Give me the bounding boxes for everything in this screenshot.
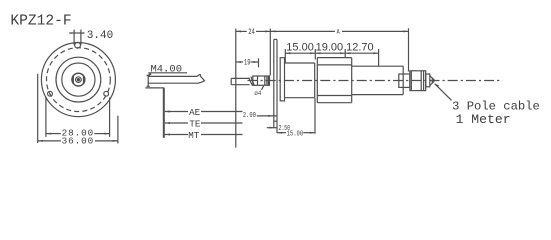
body2 inner line bottom (317, 95, 351, 97)
nut facet line 1 (257, 76, 259, 85)
M4.00 leader arrowhead (146, 73, 151, 77)
svg-text:MT: MT (188, 130, 200, 141)
flange ext below right (276, 121, 278, 133)
body2 left face (316, 58, 318, 103)
svg-text:15.00: 15.00 (287, 130, 304, 138)
center line (dash-dot) (248, 80, 503, 82)
body2 top (317, 57, 351, 59)
screw left end serif bottom (147, 85, 150, 87)
dim 15.00 bottom line left seg (277, 132, 286, 134)
dim 36.00 line right seg (95, 140, 118, 142)
mounting hole left (48, 91, 53, 96)
svg-text:15.00: 15.00 (286, 42, 314, 54)
gland rib 1 (410, 71, 412, 91)
dim 15.00 bottom arrowheads (277, 132, 315, 134)
dim 2.50 arrow line (267, 127, 277, 129)
hook 15.00 left (284, 49, 286, 63)
gland rib 2 (420, 71, 422, 91)
dim 15.00 bottom ext right (314, 98, 316, 134)
svg-text:12.70: 12.70 (346, 42, 374, 54)
body1 right face (314, 63, 316, 98)
front view shaft circle (76, 77, 82, 83)
hook 19.00 left (314, 49, 316, 60)
dia4 leader hook (262, 86, 264, 90)
svg-text:1 Meter: 1 Meter (456, 112, 511, 127)
svg-text:3.40: 3.40 (87, 30, 113, 42)
front view shaft boss circle with flats (72, 73, 85, 86)
hook 12.70 left (344, 49, 346, 57)
cable boss step (399, 74, 410, 87)
nut facet line 3 (266, 76, 268, 85)
dim 19 arrowheads (236, 61, 259, 63)
leader AE arrowhead (165, 111, 170, 113)
shared extension line (24/A) (269, 29, 271, 76)
svg-text:2.00: 2.00 (243, 112, 256, 120)
leader TE line left (165, 122, 188, 124)
mounting hole top (75, 42, 81, 48)
dim 36.00 ext line right (117, 116, 119, 144)
svg-text:19.00: 19.00 (316, 42, 344, 54)
collar behind flange (280, 58, 284, 101)
body3 right face (402, 66, 404, 94)
dim 36.00 line left seg (38, 140, 61, 142)
svg-text:24: 24 (248, 28, 255, 37)
dim 36.00 ext line left (37, 74, 39, 143)
body2 inner line top (317, 64, 351, 66)
boss right flat (83, 76, 85, 83)
rotor shaft top line (231, 77, 249, 79)
cable sleeve (426, 74, 430, 87)
cable tip taper bottom (430, 81, 435, 86)
svg-text:M4.00: M4.00 (151, 64, 183, 76)
svg-text:A: A (337, 28, 340, 36)
flange ext below left (273, 121, 275, 128)
body2 right face (351, 58, 353, 103)
cable leader arrowhead (434, 83, 439, 87)
hook 12.70 right (378, 49, 380, 66)
svg-text:19: 19 (244, 59, 251, 68)
shaft break slant 2 (251, 77, 255, 86)
leader AE line left (165, 111, 188, 113)
svg-text:TE: TE (189, 118, 201, 129)
dim 24 arrowheads (236, 30, 270, 32)
dim A arrowheads (270, 30, 408, 32)
svg-text:36.00: 36.00 (62, 135, 95, 146)
dim 3.40 line left (69, 32, 84, 34)
dim 19 right ext line (258, 58, 260, 67)
front view center dot (77, 78, 80, 81)
leader MT line left (165, 134, 188, 136)
body3 bottom (352, 94, 404, 96)
mounting hole right (104, 91, 109, 96)
dim 2.00 arrowhead (268, 115, 273, 117)
dim 28.00 arrowheads (46, 133, 110, 135)
body3 top (352, 65, 404, 67)
front view body circle r22 (56, 57, 101, 102)
cable leader line (435, 84, 452, 101)
cable tip taper top (430, 76, 435, 80)
svg-text:ø4: ø4 (254, 90, 261, 98)
dim 24 line right seg (256, 30, 270, 32)
flange plate left face (273, 39, 275, 121)
body section 1 bottom (285, 97, 315, 99)
dim 15.00 bottom line right seg (303, 132, 315, 134)
dim 3.40 extension line left (73, 30, 75, 45)
dim 28.00 line right seg (94, 133, 109, 135)
leader TE arrowhead (165, 122, 170, 124)
dim 28.00 line left seg (46, 133, 61, 135)
body2 bottom (317, 102, 351, 104)
screw shaft top line (148, 75, 197, 77)
leader MT arrowhead (165, 134, 170, 136)
dim 19 line left seg with arrow (236, 61, 243, 63)
shaft break slant 1 (249, 78, 253, 86)
body section 1 top (285, 62, 315, 64)
bracket vertical line (163, 88, 165, 138)
boss left flat (72, 76, 74, 83)
screw left end cap (147, 75, 149, 86)
bracket plate line (145, 87, 164, 89)
svg-text:AE: AE (189, 107, 201, 118)
dim 2.00 arrow line (257, 115, 277, 117)
screw break flag (197, 75, 204, 84)
dim 28.00 ext line right (109, 98, 111, 137)
screw shaft bottom line (148, 82, 199, 84)
flange plate right face (276, 39, 278, 121)
dim 19 line right seg (251, 61, 259, 63)
shaft nut body (253, 76, 270, 85)
dim 24 line left seg (236, 30, 247, 32)
dim 3.40 extension line right (80, 30, 82, 45)
gland rib 3 (423, 71, 425, 91)
flange top cap (274, 38, 277, 40)
side view long extension line at shaft end (235, 29, 237, 148)
flange bottom cap (274, 120, 277, 122)
dim A right ext line (408, 28, 410, 71)
dim 36.00 arrowheads (38, 140, 118, 142)
dim 3.40 arrowheads (71, 32, 84, 34)
dim A line right seg (342, 30, 409, 32)
dim 28.00 ext line left (45, 97, 47, 137)
rotor shaft bottom line (231, 84, 249, 86)
rotor shaft left end cap (230, 78, 232, 84)
cable gland (410, 71, 426, 91)
leader AE line right (201, 111, 243, 113)
leader TE line right (201, 122, 243, 124)
M4.00 leader underline (148, 72, 187, 74)
front view bolt circle (dashed) (47, 48, 111, 112)
nut facet line 2 (264, 76, 266, 85)
top dims line (285, 52, 378, 54)
svg-text:KPZ12-F: KPZ12-F (10, 13, 71, 29)
nut facet line 4 (267, 76, 269, 85)
cable tip end (431, 78, 433, 84)
leader MT line right (201, 134, 243, 136)
screw left end serif top (147, 74, 150, 76)
top dims arrowheads (285, 52, 378, 54)
front view outer circle (flange OD 36) (41, 43, 115, 117)
front view body circle r17 (62, 63, 95, 96)
dim A line left seg (270, 30, 335, 32)
dim 2.50 arrowhead (270, 127, 274, 129)
